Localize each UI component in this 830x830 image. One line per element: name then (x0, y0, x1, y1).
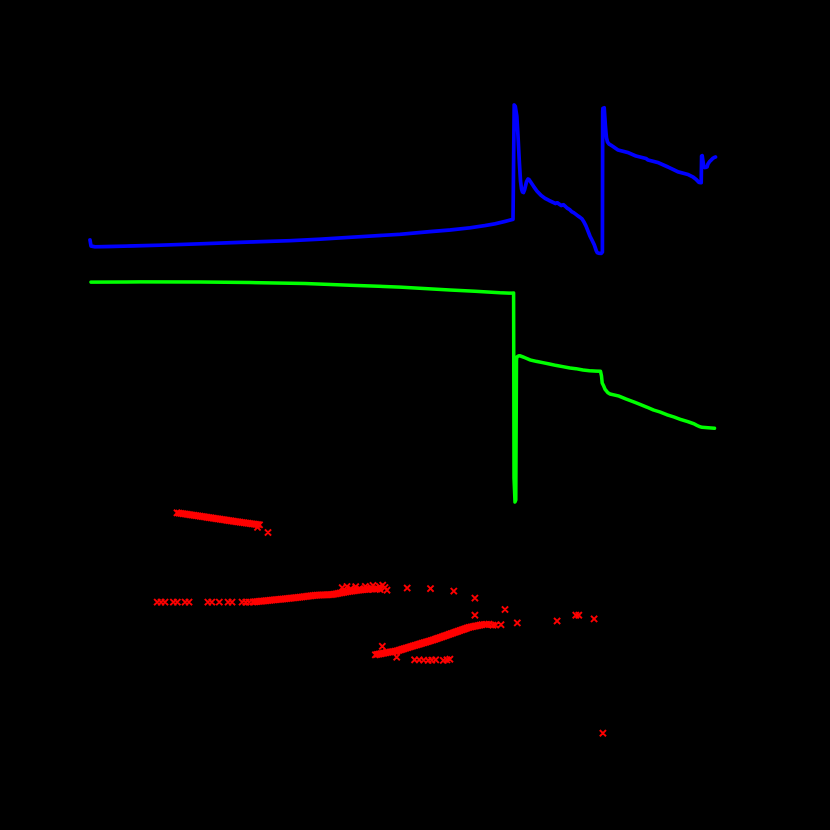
red band B line (253, 589, 375, 602)
blue series line (90, 105, 716, 253)
red band C line (375, 624, 489, 655)
red band B markers (250, 586, 378, 606)
red band A line (177, 513, 260, 525)
red scatter markers (154, 524, 606, 736)
red band A markers (174, 510, 263, 528)
green series line (91, 282, 715, 502)
red band C markers (372, 621, 492, 658)
